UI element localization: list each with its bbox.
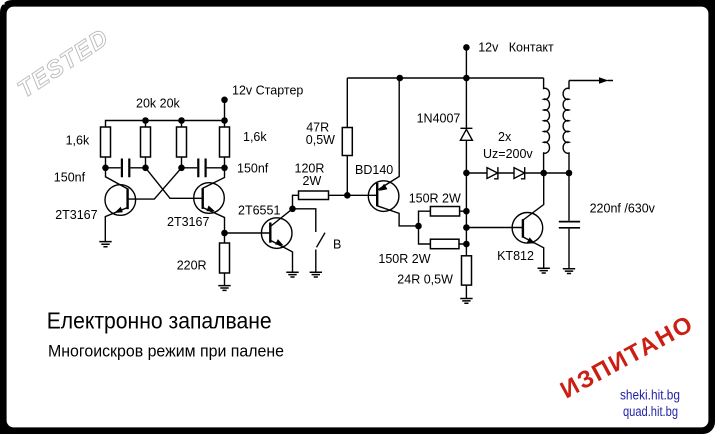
inductor secondary winding xyxy=(563,81,569,174)
svg-text:150nf: 150nf xyxy=(54,171,86,185)
zener diode 1 xyxy=(487,167,498,179)
svg-text:2x: 2x xyxy=(498,130,512,144)
node Q4 collector xyxy=(415,223,422,230)
resistor 47R 0,5W xyxy=(342,128,352,156)
svg-text:Uz=200v: Uz=200v xyxy=(483,147,533,161)
wire 220nf stems xyxy=(568,173,570,269)
svg-text:150R 2W: 150R 2W xyxy=(409,192,461,206)
wire 24R bottom stem xyxy=(465,285,467,298)
wire cap1 leads xyxy=(106,167,146,169)
svg-text:KT812: KT812 xyxy=(497,249,534,263)
wire zener row xyxy=(466,172,569,174)
resistor 1,6k (right) xyxy=(220,127,230,157)
svg-text:20k 20k: 20k 20k xyxy=(136,97,181,111)
wire resistor top stems xyxy=(146,121,225,128)
svg-text:220R: 220R xyxy=(177,259,207,273)
inductor primary winding xyxy=(544,78,550,173)
wire cross coupling A xyxy=(146,168,203,199)
node 150R lower right xyxy=(463,241,470,248)
wire Q5 collector xyxy=(523,173,544,220)
wire Q4 base xyxy=(347,194,377,196)
svg-text:0,5W: 0,5W xyxy=(306,133,335,147)
wire 150R upper branch xyxy=(419,211,467,226)
node dots xyxy=(102,44,572,247)
svg-text:quad.hit.bg: quad.hit.bg xyxy=(623,404,678,419)
node zener left xyxy=(463,170,470,177)
ground 220R xyxy=(218,286,230,291)
node main rail top xyxy=(463,75,470,82)
resistor 20k (right) xyxy=(177,127,187,157)
svg-text:sheki.hit.bg: sheki.hit.bg xyxy=(620,388,680,403)
svg-text:150nf: 150nf xyxy=(237,162,269,176)
resistor 20k (left) xyxy=(141,127,151,157)
resistor 150R 2W (lower) xyxy=(430,239,459,249)
output arrowhead xyxy=(599,77,609,84)
node 12v kontakt terminal xyxy=(463,44,470,51)
node cap row 2 xyxy=(142,165,149,172)
resistor 220R xyxy=(220,243,230,273)
wire node to 120R xyxy=(293,195,299,209)
wire 120R right lead xyxy=(329,194,348,196)
svg-text:1,6k: 1,6k xyxy=(66,134,90,148)
svg-text:Многоискров режим при палене: Многоискров режим при палене xyxy=(48,342,284,361)
node rail R4 xyxy=(221,117,228,124)
node primary bottom xyxy=(540,170,547,177)
svg-text:2T3167: 2T3167 xyxy=(55,208,97,222)
wire Q3 base xyxy=(225,232,271,234)
ground Q1 emitter xyxy=(99,242,111,247)
svg-text:BD140: BD140 xyxy=(355,163,393,177)
node Q4 emitter rail xyxy=(397,75,404,82)
node rail R2 xyxy=(142,117,149,124)
svg-text:220nf /630v: 220nf /630v xyxy=(590,202,656,216)
wire Q3 collector xyxy=(270,209,292,227)
transistor 2T3167 Q2 xyxy=(194,183,225,214)
resistor 24R 0,5W xyxy=(462,256,472,285)
resistor 1,6k (left) xyxy=(101,127,111,157)
svg-text:1,6k: 1,6k xyxy=(243,130,267,144)
transistor 2T3167 Q1 xyxy=(105,185,136,216)
wire cross coupling B xyxy=(128,168,182,199)
wire Q2 emitter xyxy=(203,208,225,234)
wire 150R lower branch xyxy=(419,226,467,244)
node 12v starter terminal xyxy=(221,97,228,104)
svg-text:2W: 2W xyxy=(303,174,322,188)
ground Q3 emitter xyxy=(286,272,298,277)
switch B blade xyxy=(317,233,326,248)
wire 12v Starter stem xyxy=(224,100,226,121)
transistor 2T6551 Q3 xyxy=(261,218,292,249)
wire switch branch xyxy=(293,209,316,232)
wire Q4 collector xyxy=(377,206,418,226)
node Q3 collector xyxy=(289,206,296,213)
svg-text:12v Стартер: 12v Стартер xyxy=(232,84,303,98)
ground KT812 emitter xyxy=(538,268,550,273)
ground 24R xyxy=(460,299,472,304)
wire 47R stems xyxy=(346,78,348,195)
wire multivibrator top rail xyxy=(106,121,225,128)
capacitor 150nf (right) xyxy=(198,159,205,178)
capacitor 150nf (left) xyxy=(122,159,129,178)
transistor KT812 Q5 xyxy=(512,213,543,244)
svg-text:12v Контакт: 12v Контакт xyxy=(478,41,554,55)
node cap row 3 xyxy=(178,165,185,172)
ground 220nf xyxy=(563,269,575,274)
wire resistor bottom stems xyxy=(106,157,225,168)
node cap row 1 xyxy=(102,165,109,172)
resistor 120R 2W xyxy=(299,191,329,200)
wire Q5 base xyxy=(466,227,523,229)
svg-text:2T6551: 2T6551 xyxy=(238,204,280,218)
node cap row 4 xyxy=(221,165,228,172)
svg-text:2T3167: 2T3167 xyxy=(167,215,209,229)
node Q5 base rail xyxy=(463,224,470,231)
resistor 150R 2W (upper) xyxy=(430,207,459,217)
zener diode 2 xyxy=(514,167,525,179)
transistor BD140 Q4 xyxy=(368,181,399,212)
svg-text:B: B xyxy=(333,238,341,252)
svg-text:Електронно запалване: Електронно запалване xyxy=(47,307,272,333)
diode 1N4007 xyxy=(460,128,472,140)
wire top rail 12v Kontakt xyxy=(347,77,543,79)
wire Q4 emitter xyxy=(377,78,399,190)
wire secondary output xyxy=(569,80,613,82)
svg-text:24R 0,5W: 24R 0,5W xyxy=(397,273,453,287)
wire 12v Kontakt stem xyxy=(465,47,467,78)
wire Q5 emitter xyxy=(523,237,544,268)
wire main rail lower xyxy=(465,140,467,256)
wire main rail upper xyxy=(465,78,467,128)
wire cap2 leads xyxy=(182,167,225,169)
wire 220R stems xyxy=(224,233,226,285)
wire Q2 collector xyxy=(203,168,225,189)
ground switch B xyxy=(310,272,322,277)
svg-text:1N4007: 1N4007 xyxy=(417,111,461,125)
node secondary bottom xyxy=(566,170,573,177)
wire Q1 emitter xyxy=(105,208,127,242)
stamp IZPITANO xyxy=(556,310,699,404)
capacitor 220nf /630v xyxy=(559,222,580,228)
wire Q3 emitter xyxy=(270,240,292,272)
node 150R upper right xyxy=(463,208,470,215)
wire Q1 collector xyxy=(106,168,128,189)
watermark TESTED xyxy=(13,24,114,104)
node Q2 emitter / Q3 base xyxy=(221,230,228,237)
wire switch lower stem xyxy=(315,250,317,273)
node rail R3 xyxy=(178,117,185,124)
svg-text:150R 2W: 150R 2W xyxy=(378,252,430,266)
node 47R/120R/Q4 base xyxy=(344,192,351,199)
